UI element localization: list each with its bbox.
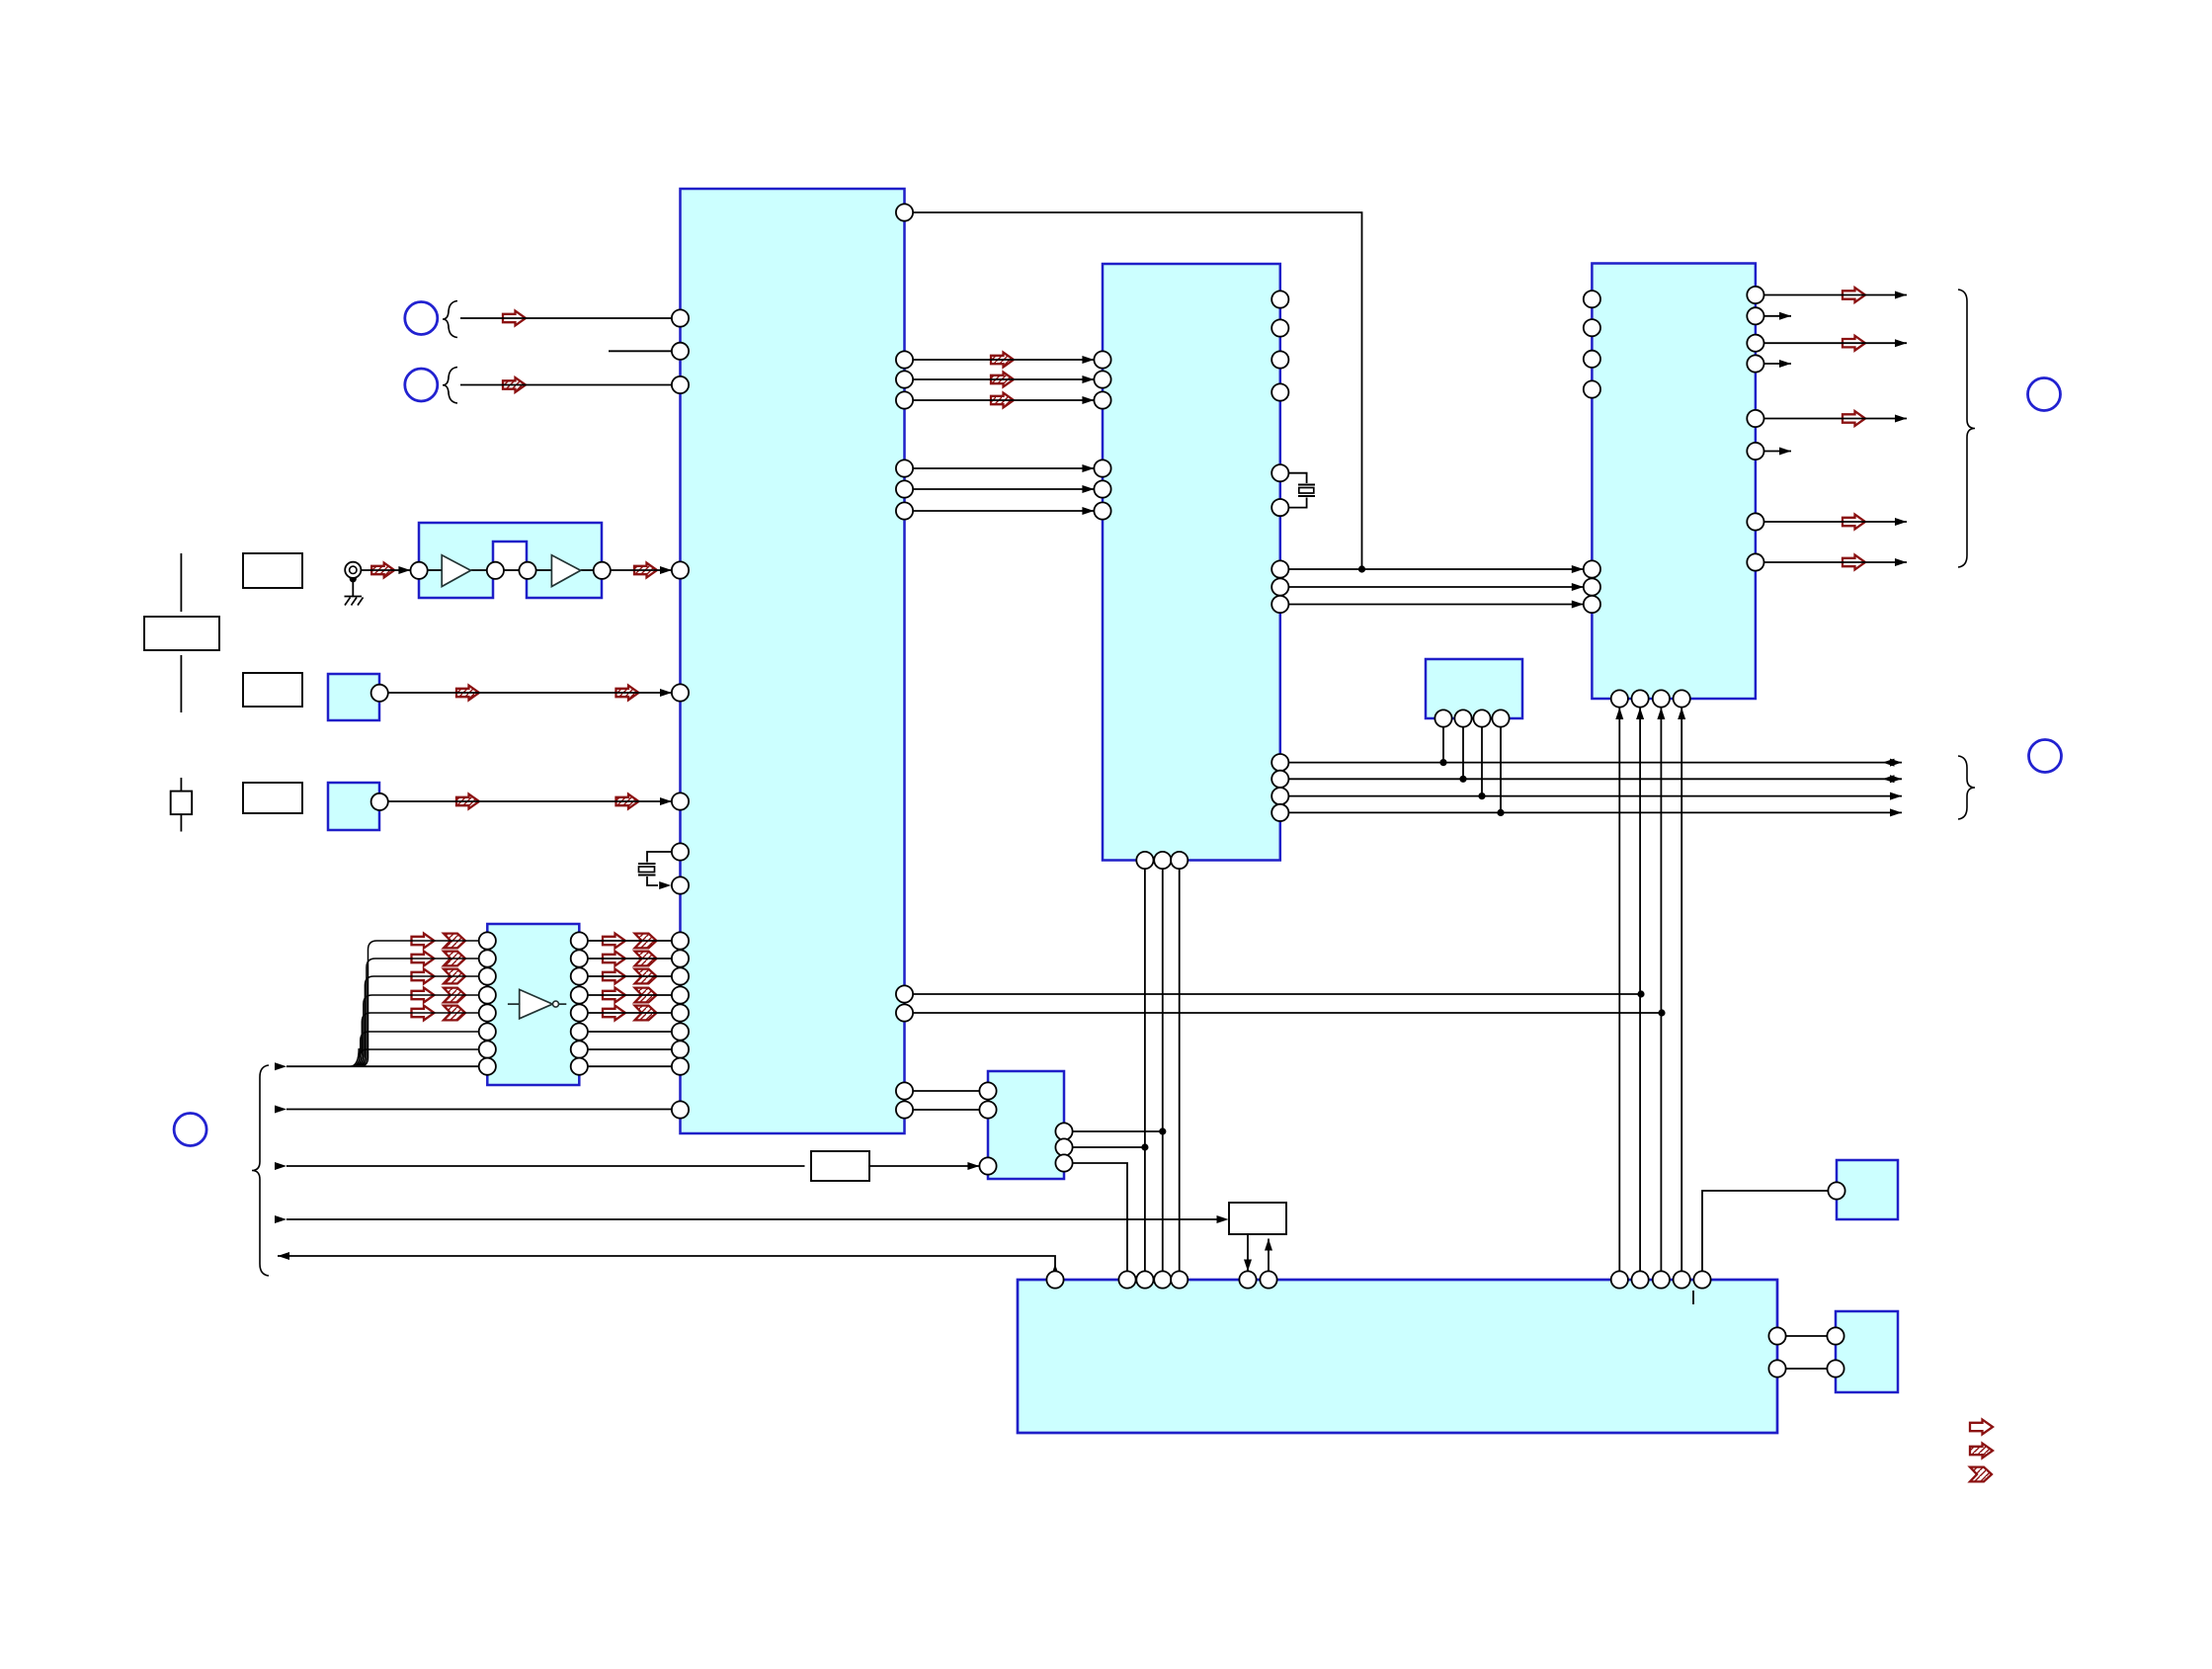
U3 left pin <box>1584 351 1600 368</box>
U3 right pin <box>1747 355 1763 372</box>
U6 top pin <box>1611 1271 1628 1288</box>
arrowhead into filter <box>398 566 410 574</box>
U3 left pin <box>1584 596 1600 613</box>
arrowhead into U6 pin <box>1244 1260 1252 1272</box>
legend arrow chevron <box>1970 1467 1992 1482</box>
wire U3 output long <box>1764 418 1908 420</box>
arrowhead into U3 <box>1572 601 1584 609</box>
inverter right pin <box>571 1004 588 1021</box>
arrow inverter in chevron <box>444 988 465 1003</box>
connector ref circle CN5 <box>174 1114 206 1146</box>
U6 top pin <box>1154 1271 1171 1288</box>
U1 left pin <box>672 843 689 860</box>
inverter left pin <box>479 1058 496 1075</box>
series component box R1 <box>811 1151 869 1181</box>
U1 right pin <box>896 391 913 408</box>
arrowhead into U2 <box>1082 507 1094 515</box>
U3 right pin <box>1747 335 1763 352</box>
arrow inverter out chevron <box>635 969 657 984</box>
wire inverter output row 5 <box>588 1012 672 1014</box>
U1 right pin <box>896 480 913 497</box>
U2 right pin <box>1271 291 1288 307</box>
U1 left pin <box>672 986 689 1003</box>
arrowhead into U5 row3 <box>967 1162 979 1170</box>
U1 left pin <box>672 343 689 360</box>
wire U6 to U8 row2 <box>1786 1368 1828 1370</box>
signal arrow U3 output <box>1843 336 1865 351</box>
wire U2 to U3 row <box>1288 568 1583 570</box>
wire stub below battery box <box>180 655 182 712</box>
U2 right pin <box>1271 383 1288 400</box>
wire U1 to U5 row1 <box>913 1090 979 1092</box>
arrow inverter in chevron <box>444 934 465 949</box>
U6 top pin <box>1046 1271 1063 1288</box>
block B pin <box>371 793 388 810</box>
signal arrow U1-U2 row <box>991 353 1014 368</box>
wire jack to ground <box>352 579 354 597</box>
component box (battery) <box>144 617 219 650</box>
arrow inverter out outline <box>603 988 625 1003</box>
U3 right pin <box>1747 513 1763 530</box>
arrowhead into U3 <box>1572 583 1584 591</box>
wire crystal X1 bottom to U1 pin <box>647 876 658 885</box>
arrowhead into U2 <box>1082 396 1094 404</box>
wire jack to filter <box>361 569 410 571</box>
U4 bottom pin <box>1454 709 1471 726</box>
filter pin <box>411 562 428 579</box>
connector box L2 <box>243 673 302 707</box>
U6 top pin <box>1632 1271 1649 1288</box>
IC U2 digital signal processor block <box>1103 264 1280 861</box>
ground symbol <box>345 597 364 606</box>
U3 right pin <box>1747 443 1763 459</box>
signal arrow U1-U2 row <box>991 393 1014 408</box>
U6 top pin <box>1171 1271 1188 1288</box>
arrow inverter out chevron <box>635 952 657 966</box>
U3 left pin <box>1584 380 1600 397</box>
inverter left pin <box>479 950 496 966</box>
left connector brace <box>252 1065 269 1276</box>
data bus wire <box>1288 778 1902 780</box>
junction net2 <box>1658 1009 1665 1016</box>
U1 left pin <box>672 309 689 326</box>
arrowhead into U1 RF pin <box>660 566 672 574</box>
arrow inverter in outline <box>412 934 435 949</box>
U3 left pin <box>1584 291 1600 307</box>
arrow inverter in outline <box>412 952 435 966</box>
junction at jack sleeve <box>350 575 357 582</box>
IC U3 audio DAC block <box>1592 264 1756 700</box>
wire filter to U1 RF pin <box>611 569 672 571</box>
arrowhead into U1 <box>660 689 672 697</box>
arrowhead U3 output <box>1895 518 1907 526</box>
vertical wire U2 to U6 <box>1162 869 1164 1271</box>
U2 left pin <box>1094 480 1110 497</box>
U3 right pin <box>1747 410 1763 427</box>
arrow inverter in chevron <box>444 952 465 966</box>
arrow inverter in outline <box>412 1006 435 1021</box>
U1 left pin <box>672 1023 689 1040</box>
right brace audio outputs <box>1958 290 1975 567</box>
crystal X1 <box>638 864 656 876</box>
arrowhead into R2 <box>1217 1215 1229 1223</box>
wire U3 output long <box>1764 342 1908 344</box>
vertical wire U2 to U6 <box>1144 869 1146 1271</box>
wire bus4 to box R2 <box>287 1218 1225 1220</box>
arrowhead into R2 bottom <box>1265 1239 1272 1251</box>
U2 right pin <box>1271 804 1288 821</box>
wire amp1 out <box>471 569 487 571</box>
arrowhead into U3 bottom pin <box>1636 708 1644 719</box>
connector ref circle CN1 <box>405 302 438 335</box>
wire U1 pin to crystal X1 top <box>647 852 672 863</box>
U1 right pin <box>896 459 913 476</box>
U2 right pin <box>1271 788 1288 804</box>
wire U5 out3 down to U6 <box>1073 1163 1127 1271</box>
wire inverter output row 2 <box>588 958 672 960</box>
filter pin <box>594 562 611 579</box>
legend arrow outline <box>1970 1420 1993 1435</box>
wire U1 to U2 row <box>913 378 1094 380</box>
U2 left pin <box>1094 351 1110 368</box>
arrowhead U3 output <box>1895 339 1907 347</box>
U1 right pin <box>896 502 913 519</box>
arrow inverter out chevron <box>635 1006 657 1021</box>
U6 top pin <box>1239 1271 1256 1288</box>
arrowhead bus2 <box>275 1106 287 1114</box>
arrowhead bus end right <box>1890 775 1902 783</box>
wire U4 pin to bus <box>1500 727 1502 813</box>
U8 left pin <box>1827 1327 1843 1344</box>
signal arrow CN1 row <box>503 311 526 326</box>
brace CN1 <box>443 301 457 338</box>
signal arrow block row a <box>456 794 479 809</box>
U2 right pin <box>1271 754 1288 771</box>
wire bus2 to U1 pin <box>287 1109 672 1111</box>
junction U4 to bus <box>1459 776 1466 783</box>
U4 bottom pin <box>1473 709 1490 726</box>
wire U2 pin to crystal X2 <box>1288 473 1307 483</box>
arrowhead into U3 <box>1572 565 1584 573</box>
wire U2 to U3 row <box>1288 604 1583 606</box>
U8 left pin <box>1827 1360 1843 1377</box>
U1 left pin <box>672 684 689 701</box>
U3 left pin <box>1584 578 1600 595</box>
inverter left pin <box>479 932 496 949</box>
U3 bottom pin <box>1611 690 1628 707</box>
data bus wire <box>1288 811 1902 813</box>
arrowhead bus1 <box>275 1062 287 1070</box>
inverter right pin <box>571 932 588 949</box>
amplifier A1 triangle <box>442 555 470 587</box>
signal arrow U3 output <box>1843 411 1865 426</box>
connector ref circle CN3 <box>2028 378 2061 411</box>
junction U4 to bus <box>1497 809 1504 816</box>
U2 left pin <box>1094 502 1110 519</box>
wire U4 pin to bus <box>1462 727 1464 780</box>
arrowhead up on U6 output wire <box>1051 1264 1059 1276</box>
inverter buffer IC block <box>487 924 579 1085</box>
wire inverter output row 1 <box>588 940 672 942</box>
U1 right pin <box>896 1082 913 1099</box>
right brace data bus <box>1958 756 1975 819</box>
U3 left pin <box>1584 560 1600 577</box>
arrowhead bus end left <box>1883 759 1895 767</box>
wire stub row2 to U1 <box>609 350 672 352</box>
wire bus5 from U6 pin <box>278 1256 1055 1271</box>
arrowhead into U2 <box>1082 485 1094 493</box>
brace CN2 <box>443 368 457 404</box>
sensor block A <box>328 674 379 720</box>
U6 right pin <box>1768 1327 1785 1344</box>
U7 left pin <box>1828 1182 1844 1199</box>
U2 bottom pin <box>1154 852 1171 869</box>
wire inverter output row 4 <box>588 994 672 996</box>
wire U3 output stub <box>1764 315 1792 317</box>
data bus wire <box>1288 795 1902 797</box>
U3 bottom pin <box>1632 690 1649 707</box>
IC U8 eeprom block <box>1836 1311 1898 1392</box>
wire U3 output long <box>1764 521 1908 523</box>
inverter right pin <box>571 986 588 1003</box>
U3 bottom pin <box>1674 690 1690 707</box>
wire CN2 row to U1 pin <box>460 384 672 386</box>
wire U1 to U2 row <box>913 359 1094 361</box>
arrowhead into U1 xtal pin <box>659 881 671 889</box>
wire U3 output long <box>1764 561 1908 563</box>
arrowhead U3 stub <box>1779 312 1791 320</box>
U3 right pin <box>1747 307 1763 324</box>
U5 right pin <box>1055 1138 1072 1155</box>
tick mark inside U6 <box>1692 1291 1694 1304</box>
U2 right pin <box>1271 464 1288 481</box>
U2 left pin <box>1094 371 1110 387</box>
U6 top pin <box>1260 1271 1276 1288</box>
wire inverter input row 4 with bend <box>355 995 479 1066</box>
arrow inverter out chevron <box>635 988 657 1003</box>
wire U6 to U8 row1 <box>1786 1335 1828 1337</box>
wire filter pin to amp1 <box>428 569 442 571</box>
U6 top pin <box>1674 1271 1690 1288</box>
wire inverter input row 5 with bend <box>353 1013 478 1066</box>
U1 right pin <box>896 371 913 387</box>
U1 left pin <box>672 1041 689 1057</box>
U3 bottom pin <box>1653 690 1670 707</box>
IC U5 interface block <box>988 1071 1064 1179</box>
U2 left pin <box>1094 459 1110 476</box>
U2 right pin <box>1271 351 1288 368</box>
wire U5 out2 <box>1073 1146 1145 1148</box>
filter pin <box>487 562 504 579</box>
wire U5 out1 <box>1073 1130 1163 1132</box>
arrow inverter out outline <box>603 969 625 984</box>
wire U1 to U2 row <box>913 510 1094 512</box>
connector ref circle CN2 <box>405 369 438 401</box>
arrowhead U3 output <box>1895 558 1907 566</box>
wire inverter output row 8 <box>588 1065 672 1067</box>
U5 left pin <box>979 1101 996 1118</box>
junction U4 to bus <box>1478 793 1485 799</box>
U6 top pin <box>1693 1271 1710 1288</box>
wire between filter pins <box>504 569 520 571</box>
wire U6 to U7 <box>1702 1191 1828 1271</box>
wire block A to U1 pin <box>388 692 672 694</box>
signal arrow U1-U2 row <box>991 373 1014 387</box>
U3 right pin <box>1747 553 1763 570</box>
vertical wire U6 to U3 <box>1639 708 1641 1271</box>
U2 bottom pin <box>1171 852 1188 869</box>
U1 left pin <box>672 932 689 949</box>
arrowhead U3 output <box>1895 292 1907 299</box>
wire U4 pin to bus <box>1442 727 1444 763</box>
U2 left pin <box>1094 391 1110 408</box>
wire CN1 row to U1 pin <box>460 317 672 319</box>
arrow inverter out outline <box>603 934 625 949</box>
wire U1 to U2 row <box>913 399 1094 401</box>
wire filter pin to amp2 <box>536 569 552 571</box>
wire bus3 to resistor <box>287 1165 805 1167</box>
U1 left pin <box>672 1004 689 1021</box>
legend arrow hatch <box>1970 1444 1993 1459</box>
U1 left pin <box>672 967 689 984</box>
arrowhead into U2 <box>1082 464 1094 472</box>
arrowhead U3 stub <box>1779 448 1791 456</box>
U4 bottom pin <box>1434 709 1451 726</box>
U2 right pin <box>1271 596 1288 613</box>
component box R2 <box>1229 1203 1286 1234</box>
U1 left pin <box>672 1101 689 1118</box>
U2 bottom pin <box>1136 852 1153 869</box>
signal arrow CN2 row <box>503 377 526 392</box>
signal arrow filter out <box>634 563 657 578</box>
U1 right pin <box>896 985 913 1002</box>
arrowhead into U2 <box>1082 376 1094 383</box>
wire inverter input row 7 with bend <box>350 1048 479 1066</box>
arrowhead bus4 <box>275 1215 287 1223</box>
wire resistor to U5 <box>869 1165 979 1167</box>
IC U6 system control micom block <box>1018 1280 1777 1433</box>
signal arrow block row b <box>616 794 639 809</box>
arrowhead U3 stub <box>1779 360 1791 368</box>
arrowhead bus3 <box>275 1162 287 1170</box>
arrowhead bus5 out <box>278 1252 289 1260</box>
wire inverter input row 3 with bend <box>356 976 478 1066</box>
filter pin <box>519 562 535 579</box>
arrowhead into U3 bottom pin <box>1657 708 1665 719</box>
arrow inverter in chevron <box>444 1006 465 1021</box>
block A pin <box>371 685 388 702</box>
sensor block B <box>328 783 379 830</box>
wire U1 to U5 row2 <box>913 1109 979 1111</box>
amplifier A2 triangle <box>551 555 580 587</box>
U6 top pin <box>1136 1271 1153 1288</box>
wire U3 output stub <box>1764 363 1792 365</box>
wire stub above switch box <box>180 778 182 792</box>
U5 left pin <box>979 1082 996 1099</box>
crystal X2 <box>1298 485 1315 497</box>
inverter right pin <box>571 1041 588 1057</box>
inverter left pin <box>479 1004 496 1021</box>
arrow inverter in outline <box>412 988 435 1003</box>
signal arrow U3 output <box>1843 288 1865 302</box>
U2 right pin <box>1271 578 1288 595</box>
wire U3 output long <box>1764 294 1908 296</box>
U1 left pin <box>672 876 689 893</box>
arrowhead bus end right <box>1890 808 1902 816</box>
wire R2 down to U6 <box>1247 1234 1249 1271</box>
wire inverter output row 3 <box>588 975 672 977</box>
data bus wire <box>1288 762 1902 764</box>
U1 left pin <box>672 950 689 966</box>
wire U1 to U2 row <box>913 488 1094 490</box>
filter block with notch (RF amp) <box>419 523 602 598</box>
arrow inverter out chevron <box>635 934 657 949</box>
inverter left pin <box>479 986 496 1003</box>
U2 right pin <box>1271 771 1288 788</box>
U3 right pin <box>1747 287 1763 303</box>
wire U2 to U3 row <box>1288 586 1583 588</box>
component box (switch) <box>171 792 193 815</box>
wire U1 to net1 <box>913 993 1641 995</box>
vertical wire U6 to U3 <box>1618 708 1620 1271</box>
signal arrow block row a <box>456 686 479 701</box>
arrow inverter out outline <box>603 1006 625 1021</box>
arrowhead into U3 bottom pin <box>1615 708 1623 719</box>
signal arrow U3 output <box>1843 515 1865 530</box>
U1 right pin <box>896 204 913 220</box>
wire U4 pin to bus <box>1481 727 1483 796</box>
inverter right pin <box>571 1058 588 1075</box>
IC U4 small logic block <box>1426 659 1522 718</box>
U4 bottom pin <box>1492 709 1509 726</box>
phono jack J1 <box>345 562 361 578</box>
inverter left pin <box>479 967 496 984</box>
inverter right pin <box>571 967 588 984</box>
wire inverter input row 6 with bend <box>352 1032 479 1066</box>
wire U1 to net2 <box>913 1012 1662 1014</box>
U6 top pin <box>1118 1271 1135 1288</box>
U5 right pin <box>1055 1154 1072 1171</box>
wire U1 top pin to junction <box>913 212 1362 569</box>
junction U1 clock into U2-U3 row <box>1358 565 1365 572</box>
signal arrow block row b <box>616 686 639 701</box>
U5 left pin <box>979 1157 996 1174</box>
signal arrow after jack <box>371 563 394 578</box>
arrowhead bus end right <box>1890 793 1902 800</box>
arrowhead U3 output <box>1895 415 1907 423</box>
arrowhead bus end right <box>1890 759 1902 767</box>
arrowhead into U1 <box>660 797 672 805</box>
connector box L3 <box>243 783 302 813</box>
IC U1 main servo/DSP block <box>681 189 905 1133</box>
arrow inverter out outline <box>603 952 625 966</box>
U1 left pin <box>672 376 689 393</box>
wire crystal X2 to U2 pin <box>1288 498 1307 508</box>
wire U6 up to R2 <box>1268 1239 1270 1272</box>
inverter right pin <box>571 1023 588 1040</box>
inverter left pin <box>479 1023 496 1040</box>
U3 left pin <box>1584 319 1600 336</box>
wire inverter output row 7 <box>588 1048 672 1050</box>
wire U3 output stub <box>1764 451 1792 453</box>
inverter gate symbol <box>508 1003 566 1005</box>
junction net1 <box>1637 990 1644 997</box>
U5 right pin <box>1055 1123 1072 1139</box>
connector box L1 <box>243 553 302 588</box>
U1 left pin <box>672 1058 689 1075</box>
arrowhead into U2 <box>1082 356 1094 364</box>
vertical wire U2 to U6 <box>1179 869 1181 1271</box>
